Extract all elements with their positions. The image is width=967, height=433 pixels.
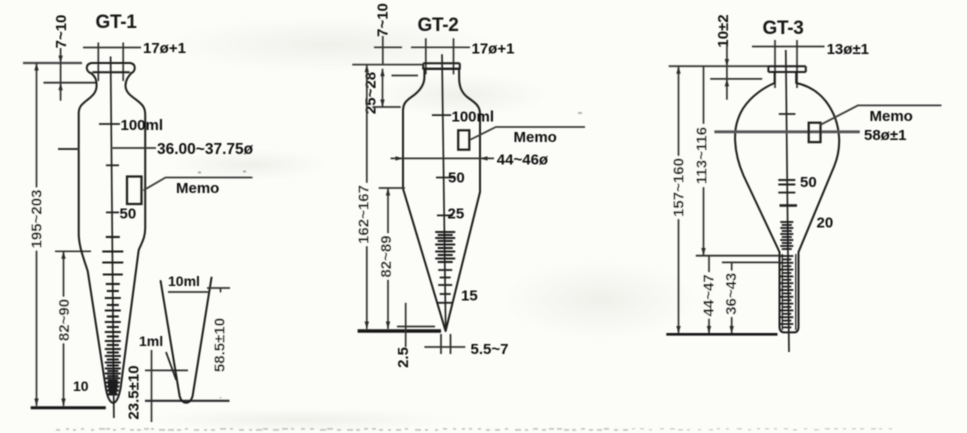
svg-text:44~46ø: 44~46ø (497, 152, 549, 169)
svg-text:82~89: 82~89 (378, 235, 395, 277)
svg-text:113~116: 113~116 (694, 127, 711, 184)
svg-text:17ø+1: 17ø+1 (143, 40, 186, 57)
svg-text:Memo: Memo (514, 129, 557, 146)
svg-text:50: 50 (800, 174, 817, 191)
svg-text:5.5~7: 5.5~7 (471, 341, 509, 358)
svg-text:36.00~37.75ø: 36.00~37.75ø (157, 141, 254, 158)
svg-text:20: 20 (817, 215, 834, 232)
svg-text:2.5: 2.5 (395, 347, 412, 368)
svg-text:50: 50 (448, 170, 465, 187)
svg-text:GT-2: GT-2 (418, 15, 459, 36)
svg-text:23.5±10: 23.5±10 (126, 365, 143, 419)
svg-text:Memo: Memo (176, 180, 219, 197)
svg-text:50: 50 (120, 206, 137, 223)
svg-text:36~43: 36~43 (723, 273, 740, 315)
svg-text:15: 15 (461, 288, 478, 305)
svg-text:13ø±1: 13ø±1 (827, 41, 869, 58)
svg-text:7~10: 7~10 (53, 15, 70, 49)
svg-text:7~10: 7~10 (375, 3, 392, 37)
svg-text:162~167: 162~167 (356, 185, 373, 244)
svg-text:25: 25 (448, 206, 465, 223)
svg-text:100ml: 100ml (121, 117, 164, 134)
svg-text:GT-3: GT-3 (763, 18, 804, 39)
svg-text:10ml: 10ml (168, 273, 200, 289)
svg-text:1ml: 1ml (139, 333, 163, 349)
svg-text:10: 10 (73, 378, 89, 394)
svg-text:58ø±1: 58ø±1 (864, 127, 906, 144)
svg-text:Memo: Memo (870, 108, 913, 125)
svg-text:58.5±10: 58.5±10 (212, 318, 229, 372)
svg-text:44~47: 44~47 (701, 274, 718, 316)
svg-text:82~90: 82~90 (56, 299, 73, 341)
svg-text:GT-1: GT-1 (96, 12, 138, 33)
svg-text:17ø+1: 17ø+1 (472, 41, 515, 58)
svg-text:10±2: 10±2 (715, 14, 732, 47)
svg-text:157~160: 157~160 (671, 158, 688, 217)
svg-text:195~203: 195~203 (29, 190, 46, 249)
svg-text:100ml: 100ml (452, 109, 495, 126)
